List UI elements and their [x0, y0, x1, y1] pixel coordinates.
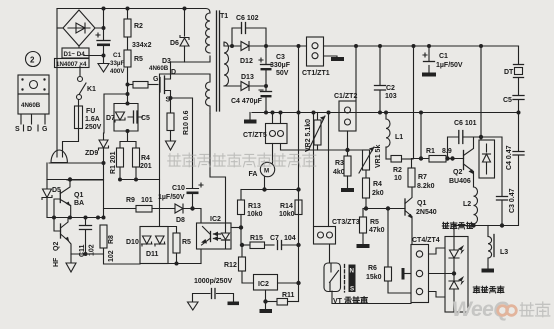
mosfet D3 4N60B: [149, 58, 176, 104]
switch K1: [77, 77, 97, 100]
svg-text:ZD9: ZD9: [85, 150, 98, 157]
svg-text:R12: R12: [224, 262, 237, 269]
resistor R3 4k0: [333, 150, 354, 192]
svg-text:C6 101: C6 101: [454, 120, 477, 127]
resistor R15: [241, 235, 274, 249]
svg-text:C7: C7: [270, 235, 279, 242]
svg-text:Q1: Q1: [417, 200, 426, 207]
snubber D7 C5 section: [114, 102, 138, 134]
capacitor C5 right: [503, 96, 524, 105]
resistor R5: [124, 37, 143, 104]
potentiometer VR2 5.1k0: [305, 113, 325, 153]
svg-text:R4: R4: [141, 155, 150, 162]
connector CT4/ZT4: [411, 237, 440, 303]
wire left mains vertical: [56, 9, 58, 152]
svg-text:D: D: [171, 69, 176, 76]
svg-text:BU406: BU406: [449, 178, 471, 185]
svg-text:102: 102: [108, 250, 115, 262]
svg-text:Q2: Q2: [53, 242, 60, 251]
svg-text:201: 201: [140, 163, 152, 170]
capacitor C6 102: [230, 15, 266, 48]
resistor R4 201: [133, 148, 152, 179]
svg-text:C3: C3: [276, 54, 285, 61]
svg-text:VT: VT: [333, 298, 343, 305]
svg-text:L1: L1: [395, 134, 403, 141]
wire Q1 base feed: [46, 163, 48, 180]
svg-text:R9: R9: [126, 197, 135, 204]
svg-text:K1: K1: [87, 86, 96, 93]
svg-text:L3: L3: [500, 249, 508, 256]
resistor R7 8.2k0: [408, 46, 435, 190]
transistor Q2 BU406: [449, 135, 483, 187]
svg-text:C3 0.47: C3 0.47: [509, 188, 516, 213]
svg-text:D: D: [27, 126, 32, 133]
label red lack water: [442, 222, 472, 229]
svg-text:2k0: 2k0: [372, 190, 384, 197]
svg-text:R10 0.6: R10 0.6: [183, 110, 190, 135]
svg-text:D6: D6: [170, 40, 179, 47]
svg-text:R11: R11: [282, 292, 295, 299]
svg-text:N: N: [350, 268, 355, 275]
resistor R11: [266, 292, 299, 305]
diode D13: [224, 74, 266, 91]
svg-text:8.9: 8.9: [442, 148, 452, 155]
svg-text:C11: C11: [79, 244, 86, 257]
svg-text:C6 102: C6 102: [236, 15, 259, 22]
svg-text:R2: R2: [393, 167, 402, 174]
svg-text:1.6A: 1.6A: [85, 116, 100, 123]
inductor L1: [386, 113, 403, 160]
svg-text:R13: R13: [248, 203, 261, 210]
svg-text:D13: D13: [241, 74, 254, 81]
transistor Q2 HF: [53, 218, 71, 268]
watermark WeeQoo: [452, 298, 550, 321]
wire y225.5: [454, 113, 519, 237]
wire y158.5 base R1: [412, 113, 430, 161]
package drawing 4N60B: [15, 75, 49, 133]
resistor R13 10k0: [231, 190, 263, 246]
svg-text:G: G: [42, 126, 48, 133]
damper diode box: [479, 137, 495, 178]
wire bus y112.5 ground rail: [252, 111, 521, 115]
svg-text:S: S: [15, 126, 20, 133]
svg-text:R14: R14: [280, 203, 293, 210]
svg-text:2N540: 2N540: [416, 209, 437, 216]
svg-text:R5: R5: [370, 219, 379, 226]
svg-text:M: M: [264, 168, 269, 175]
svg-text:R6: R6: [368, 265, 377, 272]
svg-text:4N60B: 4N60B: [149, 65, 169, 72]
reed switch VT: [324, 244, 411, 304]
svg-text:D10: D10: [126, 239, 139, 246]
node bridge plus: [95, 7, 106, 41]
wire y189.5: [241, 187, 299, 191]
LED green humidify: [449, 274, 465, 313]
svg-text:4N60B: 4N60B: [21, 102, 41, 109]
svg-text:400V: 400V: [110, 68, 125, 75]
svg-text:T1: T1: [220, 13, 228, 20]
capacitor C11 102: [79, 218, 96, 258]
resistor R14 10k0: [279, 187, 302, 218]
svg-text:R4: R4: [373, 181, 382, 188]
svg-text:D3: D3: [162, 58, 171, 65]
svg-text:C4 470µF: C4 470µF: [231, 98, 263, 105]
svg-text:R1: R1: [426, 148, 435, 155]
wire bridge bottom to K1: [79, 46, 80, 76]
motor FA: [249, 144, 275, 190]
svg-text:8.2k0: 8.2k0: [417, 183, 435, 190]
svg-text:2: 2: [30, 56, 35, 65]
svg-text:G: G: [153, 76, 159, 83]
resistor R2 334x2: [124, 7, 152, 50]
diode D6: [170, 7, 189, 63]
svg-text:R3: R3: [335, 160, 344, 167]
svg-text:C2: C2: [386, 85, 395, 92]
resistor R4 2k0: [363, 170, 384, 209]
svg-text:CT1/ZT1: CT1/ZT1: [302, 70, 330, 77]
wire bus y46 secondary: [266, 44, 519, 137]
resistor R5 opto: [168, 227, 191, 264]
label green humidify: [473, 286, 503, 293]
wire source node: [169, 96, 173, 113]
T1 secondary winding: [224, 42, 229, 86]
transformer T1: [217, 11, 229, 111]
svg-text:R7: R7: [418, 174, 427, 181]
svg-text:50V: 50V: [276, 70, 289, 77]
resistor R8 102: [100, 225, 140, 264]
optocoupler IC2: [197, 216, 232, 249]
svg-text:VR2 5.1k0: VR2 5.1k0: [305, 119, 312, 152]
svg-text:1µF/50V: 1µF/50V: [436, 62, 463, 69]
connector CT1/ZT1: [302, 37, 330, 77]
svg-text:S: S: [350, 286, 354, 293]
svg-text:R5: R5: [134, 56, 143, 63]
transistor Q1 2N540: [405, 186, 437, 245]
wire ZD9 line to y180: [67, 163, 104, 180]
svg-text:C1: C1: [439, 53, 448, 60]
T1 aux winding: [206, 82, 211, 114]
resistor R1 8.9: [426, 148, 464, 162]
svg-text:IC2: IC2: [258, 281, 269, 288]
svg-text:D12: D12: [240, 58, 253, 65]
svg-text:C5: C5: [503, 97, 512, 104]
wire y263: [168, 262, 201, 266]
connector CT/ZT5: [243, 113, 318, 151]
fuse FU 1.6A 250V: [75, 100, 102, 132]
ground at CT1/ZT1: [324, 56, 345, 61]
svg-text:4k0: 4k0: [333, 169, 345, 176]
wire y113 output: [421, 112, 519, 114]
svg-text:C5: C5: [141, 115, 150, 122]
svg-text:10k0: 10k0: [279, 211, 295, 218]
svg-text:1µF/50V: 1µF/50V: [158, 194, 185, 201]
svg-text:10k0: 10k0: [247, 211, 263, 218]
label box D1~D4: [55, 48, 90, 68]
svg-text:102: 102: [89, 244, 96, 256]
wire FU to plug: [63, 129, 79, 153]
LED red lack-of-water: [449, 237, 465, 274]
svg-text:FU: FU: [86, 108, 95, 115]
capacitor C4 470uF: [231, 84, 272, 113]
wire y150: [318, 148, 367, 152]
svg-text:C1: C1: [113, 52, 121, 59]
svg-text:BA: BA: [74, 200, 84, 207]
ground on bus y112.5: [244, 113, 257, 124]
node bridge minus: [84, 54, 106, 58]
svg-text:IC2: IC2: [210, 216, 221, 223]
wire y217 bottom-left: [47, 216, 106, 220]
svg-text:D8: D8: [176, 217, 185, 224]
svg-text:33µF: 33µF: [110, 60, 124, 67]
svg-text:L2: L2: [463, 201, 471, 208]
probe electrode: [402, 268, 412, 280]
svg-text:R5: R5: [182, 239, 191, 246]
wire aux bottom to opto: [210, 114, 226, 224]
wire branch to ZD9 column: [104, 94, 128, 133]
svg-text:CT4/ZT4: CT4/ZT4: [412, 237, 440, 244]
resistor R6 15k0: [366, 209, 411, 294]
watermark center: [168, 153, 316, 167]
T1 primary winding: [206, 13, 211, 53]
svg-text:1000p/250V: 1000p/250V: [194, 278, 232, 285]
zener ZD9: [85, 133, 109, 163]
svg-text:C1/ZT2: C1/ZT2: [334, 93, 357, 100]
wire lower-left bus y163: [49, 161, 106, 165]
svg-text:Q1: Q1: [74, 192, 83, 199]
svg-text:D1~ D4: D1~ D4: [64, 51, 86, 58]
ground below C1: [98, 57, 109, 72]
resistor gate R: [128, 76, 160, 88]
svg-text:HF: HF: [53, 257, 60, 267]
svg-text:R15: R15: [250, 235, 263, 242]
svg-text:104: 104: [284, 235, 296, 242]
diode D12: [224, 42, 266, 66]
diode D5: [42, 180, 61, 218]
svg-text:R8: R8: [108, 235, 115, 244]
svg-text:D7: D7: [106, 115, 115, 122]
magnet N S: [345, 265, 356, 293]
wire y208.5 base bus: [363, 206, 405, 210]
resistor R10 0.6: [166, 110, 191, 150]
bridge rectifier D1~D4: [57, 10, 95, 46]
capacitor C1 33uF/400V: [96, 33, 125, 75]
AC plug: [51, 150, 67, 163]
inductor L2: [463, 187, 478, 226]
wire y254 and ground: [66, 252, 104, 272]
resistor R5 47k0: [357, 209, 385, 249]
svg-text:D11: D11: [146, 251, 159, 258]
wire x298 lower: [296, 190, 300, 302]
capacitor C10 1uF/50V: [158, 183, 203, 209]
svg-text:DT: DT: [504, 69, 514, 76]
svg-text:47k0: 47k0: [369, 227, 385, 234]
svg-text:334x2: 334x2: [132, 42, 152, 49]
capacitor C6 101: [445, 120, 481, 161]
wire rail x298: [298, 46, 300, 190]
svg-text:WeeQ: WeeQ: [452, 298, 509, 321]
capacitor C3 0.47: [481, 137, 516, 226]
svg-text:103: 103: [385, 93, 397, 100]
diode D8: [175, 204, 201, 224]
potentiometer VR1 5k: [359, 145, 382, 173]
svg-text:101: 101: [141, 197, 153, 204]
wire drain y62: [171, 56, 211, 62]
svg-text:10: 10: [394, 175, 402, 182]
svg-text:C10: C10: [172, 185, 185, 192]
box diodes D10 D11: [126, 227, 168, 264]
svg-text:330µF: 330µF: [270, 62, 291, 69]
svg-text:FA: FA: [249, 171, 258, 178]
connector CT3/ZT3: [314, 111, 360, 245]
svg-text:CT3/ZT3: CT3/ZT3: [332, 219, 360, 226]
svg-text:C4 0.47: C4 0.47: [506, 145, 513, 170]
resistor R2 10: [386, 156, 413, 183]
capacitor C2 103: [375, 46, 397, 113]
svg-text:15k0: 15k0: [366, 274, 382, 281]
wire top bus L: [57, 9, 210, 14]
capacitor C1 1uF/50V: [422, 46, 463, 77]
label VT reed: [333, 297, 367, 306]
wire aux top y74: [160, 74, 211, 226]
capacitor C5: [128, 111, 150, 123]
svg-text:CT/ZT5: CT/ZT5: [243, 132, 267, 139]
svg-text:Q2: Q2: [453, 169, 462, 176]
svg-text:VR1 5k: VR1 5k: [375, 145, 382, 168]
svg-text:1N4007 ×4: 1N4007 ×4: [56, 61, 87, 68]
capacitor C4 0.47: [506, 145, 524, 170]
svg-text:R2: R2: [134, 23, 143, 30]
regulator IC2 431: [254, 275, 299, 304]
wire opto cathode return: [200, 250, 202, 264]
transistor Q1 BA: [54, 180, 84, 218]
zener D7: [106, 112, 125, 122]
wire y179 collector bus: [47, 177, 160, 181]
inductor L3: [482, 226, 509, 273]
circled 2 callout: [26, 52, 41, 67]
resistor R12: [224, 243, 254, 283]
svg-text:R1 201: R1 201: [110, 151, 117, 174]
capacitor 1000p/250V: [188, 278, 240, 310]
capacitor C7 104: [270, 235, 301, 250]
resistor R1 201: [110, 131, 136, 179]
resistor R9 101: [104, 180, 175, 218]
crystal DT: [504, 46, 524, 113]
LED box: [429, 237, 469, 313]
ground below IC2: [260, 302, 273, 314]
connector C1/ZT2: [334, 46, 357, 150]
capacitor C3 330uF/50V: [259, 44, 291, 86]
svg-text:250V: 250V: [85, 124, 102, 131]
